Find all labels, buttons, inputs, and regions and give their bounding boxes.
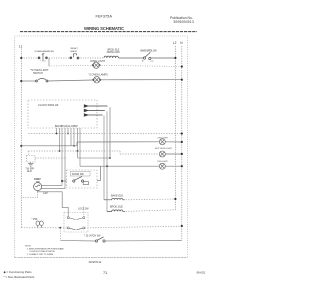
bottom switch — [95, 237, 105, 242]
svg-text:SWITCH: SWITCH — [33, 72, 43, 75]
node junction rowE x60.3 — [59, 227, 61, 229]
svg-text:L1: L1 — [19, 44, 23, 48]
wire rowC dashed a — [29, 150, 121, 152]
door switch — [73, 176, 89, 184]
svg-text:C2: C2 — [151, 61, 155, 63]
wire rowE left — [21, 227, 67, 229]
wire rowB left — [21, 145, 77, 147]
svg-text:71: 71 — [103, 270, 107, 275]
broil switch — [143, 52, 151, 59]
wire rowB right — [77, 141, 159, 143]
pin wire x77 — [77, 128, 79, 151]
wire dashed row A — [29, 133, 182, 135]
node junction rowA x56.5 — [56, 133, 58, 135]
wire rowC step — [119, 151, 121, 154]
node junction N rowB — [181, 141, 183, 143]
svg-text:1. SWITCH SHOWN IN OFF POSITIO: 1. SWITCH SHOWN IN OFF POSITION AND — [27, 247, 64, 250]
wire rowB b — [165, 141, 182, 143]
wire rowE right — [85, 226, 182, 228]
svg-text:2. CONNECT ONLY TO 3 WIRE: 2. CONNECT ONLY TO 3 WIRE — [27, 254, 54, 256]
svg-text:CLOCK 50/60 HZ: CLOCK 50/60 HZ — [38, 103, 59, 107]
svg-text:99-002: 99-002 — [197, 270, 206, 274]
wire row3 a — [21, 80, 36, 82]
EOC dashed box — [28, 100, 97, 128]
wire door riser — [100, 166, 102, 181]
connector arrow 1 — [84, 105, 107, 108]
node junction L1 rowB — [20, 145, 22, 147]
indicator light 3 — [159, 163, 165, 169]
wire row3 b — [47, 80, 93, 81]
door switch dashed box — [67, 170, 98, 188]
wire rowB riser — [76, 142, 78, 146]
wire dashed y=158 — [35, 157, 67, 159]
wire motor right 2 — [42, 188, 66, 190]
wire L1 vertical — [20, 49, 22, 228]
breaker — [70, 54, 79, 59]
node junction L2 bake — [174, 198, 176, 200]
connector arrow 2 — [84, 109, 105, 112]
svg-text:RESET: RESET — [71, 48, 79, 50]
wire rowC left corner down — [28, 151, 30, 156]
pin wire x62 — [61, 128, 63, 185]
door lamp — [93, 77, 101, 83]
wire stub into DP box top — [83, 207, 85, 217]
svg-text:* P24: * P24 — [32, 218, 39, 221]
oven light switch — [36, 78, 49, 82]
wire drop x60.3 — [59, 228, 61, 241]
pin wire x80 — [79, 128, 81, 166]
transformer dashed box — [27, 156, 36, 163]
outer cabinet dashed box — [14, 36, 187, 258]
wire row2 a — [49, 64, 93, 67]
pin wire x59.5 — [59, 128, 61, 151]
svg-text:* = Non-Illustrated Parts: * = Non-Illustrated Parts — [4, 275, 35, 279]
wire row1 a — [21, 57, 39, 59]
node junction L2 row1 — [174, 57, 176, 59]
wire L2 vertical — [174, 46, 176, 199]
svg-text:DOOR IN CLOSED POSITION: DOOR IN CLOSED POSITION — [30, 251, 56, 253]
svg-text:BRKR: BRKR — [71, 51, 77, 53]
svg-text:BAKE ELE: BAKE ELE — [111, 194, 123, 197]
wire motor to DP box — [38, 191, 69, 213]
wire motor right 1 — [42, 184, 62, 186]
svg-text:DR LIGHT: DR LIGHT — [158, 161, 169, 163]
node junction y158 x110 — [109, 157, 111, 159]
svg-text:N: N — [180, 41, 183, 45]
svg-text:HOT SUR LIGHT: HOT SUR LIGHT — [155, 148, 173, 150]
indicator light 1 — [159, 139, 165, 145]
svg-text:B: B — [142, 61, 144, 63]
node junction rowD x107.5 — [106, 165, 108, 167]
thermal fuse TOD — [38, 53, 48, 62]
wire N vertical — [181, 46, 183, 241]
motor — [34, 183, 42, 191]
wire rowC dashed b — [120, 153, 159, 155]
pin wire x74 — [73, 128, 75, 146]
node junction N rowC — [181, 153, 183, 155]
indicator light 2 — [159, 151, 165, 157]
wire bake lower to L2 — [126, 210, 176, 212]
wire row1 e — [151, 57, 175, 59]
svg-text:1: 1 — [40, 60, 42, 62]
DP switch dashed box — [64, 213, 88, 233]
svg-text:*2 OVEN LAMPS: *2 OVEN LAMPS — [89, 74, 109, 77]
wire riser x77.5 — [77, 151, 79, 158]
node junction N rowE — [181, 225, 183, 227]
svg-text:5995394913: 5995394913 — [174, 20, 194, 24]
wire row1 d — [119, 57, 145, 59]
svg-text:3400W 240V: 3400W 240V — [107, 52, 121, 54]
svg-text:BROIL ELE: BROIL ELE — [110, 206, 123, 209]
svg-text:BAKE BROIL SW: BAKE BROIL SW — [141, 50, 158, 53]
svg-text:2: 2 — [45, 60, 47, 62]
outer box bottom edge emphasis — [14, 257, 187, 259]
svg-text:L2: L2 — [173, 41, 177, 45]
node junction rowC x77.5 — [77, 150, 79, 152]
wire riser row1-row2 — [48, 58, 50, 66]
wire y158 — [78, 157, 111, 159]
node junction N rowD — [181, 165, 183, 167]
svg-text:FEF375A: FEF375A — [96, 14, 113, 19]
svg-text:CAP: CAP — [43, 192, 48, 195]
DP switch terminals — [67, 217, 85, 230]
wire vertical x104.8 to upper element — [103, 116, 105, 200]
node junction rowA N — [181, 132, 183, 134]
node junction door left — [61, 180, 63, 182]
svg-text:316257114: 316257114 — [89, 260, 102, 264]
wire rowF a — [60, 239, 96, 242]
wire row2 b — [99, 65, 182, 66]
node junction N row3 — [181, 79, 183, 81]
node junction L1 row3 — [20, 80, 22, 82]
svg-text:*18 SPK: *18 SPK — [26, 168, 35, 170]
svg-text:◆ = Functioning Parts: ◆ = Functioning Parts — [4, 270, 33, 274]
wire rowD b — [165, 165, 182, 167]
node junction L1 row1 — [20, 57, 22, 59]
node junction rowB x74 — [73, 145, 75, 147]
wire row1 c — [78, 57, 104, 59]
wire rowF b — [105, 240, 182, 243]
bake element upper — [104, 198, 125, 200]
connector arrow 3 — [84, 114, 102, 117]
wire rowC c — [165, 153, 182, 155]
pin wire x68 — [67, 128, 69, 134]
wire bake upper to L2 — [126, 198, 176, 201]
pin wire x71 — [70, 128, 72, 146]
transformer element — [28, 162, 34, 166]
svg-text:DOOR SW: DOOR SW — [72, 173, 84, 176]
wire vertical x110 — [109, 107, 111, 158]
wire pin x68 into box — [67, 213, 69, 217]
pin wire x56.5 — [56, 128, 58, 134]
svg-text:* 15 LATCH SW: * 15 LATCH SW — [84, 235, 101, 238]
header rule — [20, 31, 197, 33]
wire row3 c — [100, 79, 182, 81]
wire vertical x107.5 to lower element — [106, 111, 108, 211]
svg-text:ALM: ALM — [27, 170, 32, 173]
wire row1 b — [47, 57, 71, 59]
wire rowD — [80, 165, 159, 167]
door switch label — [71, 171, 91, 176]
svg-text:BA K DB CLN L1 N DR P: BA K DB CLN L1 N DR P — [55, 125, 78, 128]
node junction N row2 — [181, 65, 183, 67]
svg-text:WIRING SCHEMATIC: WIRING SCHEMATIC — [84, 26, 124, 31]
broil element resistor — [104, 56, 119, 58]
bake element lower — [107, 210, 125, 212]
svg-text:NOTE:: NOTE: — [25, 246, 32, 248]
pin wire x65 — [64, 128, 66, 189]
wire door switch right — [97, 180, 101, 182]
connector ovals — [36, 221, 43, 228]
node junction rowC x59.5 — [59, 150, 61, 152]
wire door switch left — [62, 180, 67, 182]
oven lamp — [92, 62, 100, 68]
wire motor bottom — [21, 192, 37, 198]
